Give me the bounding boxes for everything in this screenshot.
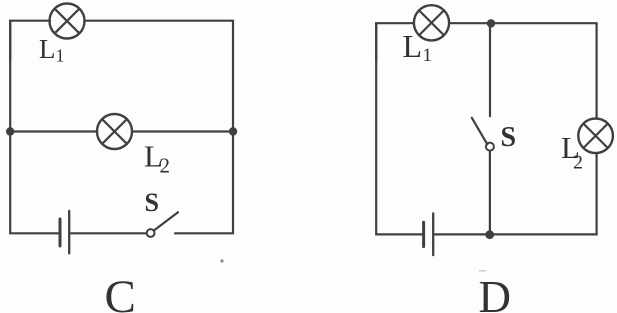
svg-text:C: C <box>105 271 136 313</box>
lamp L1 (circuit D) <box>414 5 449 40</box>
wire: circuit C top-left segment <box>10 21 50 60</box>
wire: circuit C middle branch right <box>132 130 233 132</box>
battery (circuit C) long positive plate <box>68 211 70 254</box>
battery (circuit D) short negative plate <box>422 222 425 246</box>
label L2 (circuit C) <box>144 139 170 178</box>
wire: circuit C top-right segment <box>84 21 233 132</box>
label L2 (circuit D) <box>561 130 583 174</box>
switch S (circuit D) pivot <box>486 143 494 151</box>
node: circuit C left junction dot <box>6 127 14 135</box>
node: circuit D bottom junction dot <box>485 230 494 239</box>
svg-text:1: 1 <box>423 45 433 66</box>
speck <box>220 259 223 262</box>
svg-text:2: 2 <box>160 154 171 178</box>
lamp L1 (circuit C) <box>50 4 85 39</box>
lamp L2 (circuit D) <box>578 119 613 154</box>
battery (circuit C) short negative plate <box>59 219 62 246</box>
lamp L2 (circuit C) <box>97 114 132 149</box>
svg-text:2: 2 <box>573 152 583 174</box>
wire: circuit D middle branch upper <box>489 23 491 116</box>
node: circuit D top junction dot <box>487 19 495 27</box>
wire: circuit D top-right segment <box>449 23 596 118</box>
faint smudge above D <box>479 270 486 272</box>
wire: circuit C left side <box>10 21 58 234</box>
svg-text:S: S <box>145 188 159 217</box>
wire: circuit C middle branch left <box>10 130 97 132</box>
wire: circuit D right side lower <box>433 153 596 234</box>
wire: circuit D top-left segment <box>376 23 414 60</box>
wire: circuit C right side lower <box>175 132 233 234</box>
svg-text:L: L <box>403 28 423 64</box>
svg-text:D: D <box>479 272 512 313</box>
svg-text:L: L <box>39 34 56 64</box>
switch S (circuit D) lever <box>472 118 488 145</box>
switch S (circuit C) lever <box>154 212 178 230</box>
wire: circuit C bottom between battery and switch <box>70 232 146 234</box>
switch S (circuit C) pivot <box>147 229 155 237</box>
label L1 (circuit D) <box>403 28 433 66</box>
wire: circuit D middle branch lower <box>489 151 491 235</box>
svg-text:S: S <box>501 122 517 153</box>
svg-text:1: 1 <box>56 46 65 66</box>
wire: circuit D left side <box>376 23 422 234</box>
battery (circuit D) long positive plate <box>432 213 434 255</box>
label L1 (circuit C) <box>39 34 65 66</box>
node: circuit C right junction dot <box>229 127 237 135</box>
